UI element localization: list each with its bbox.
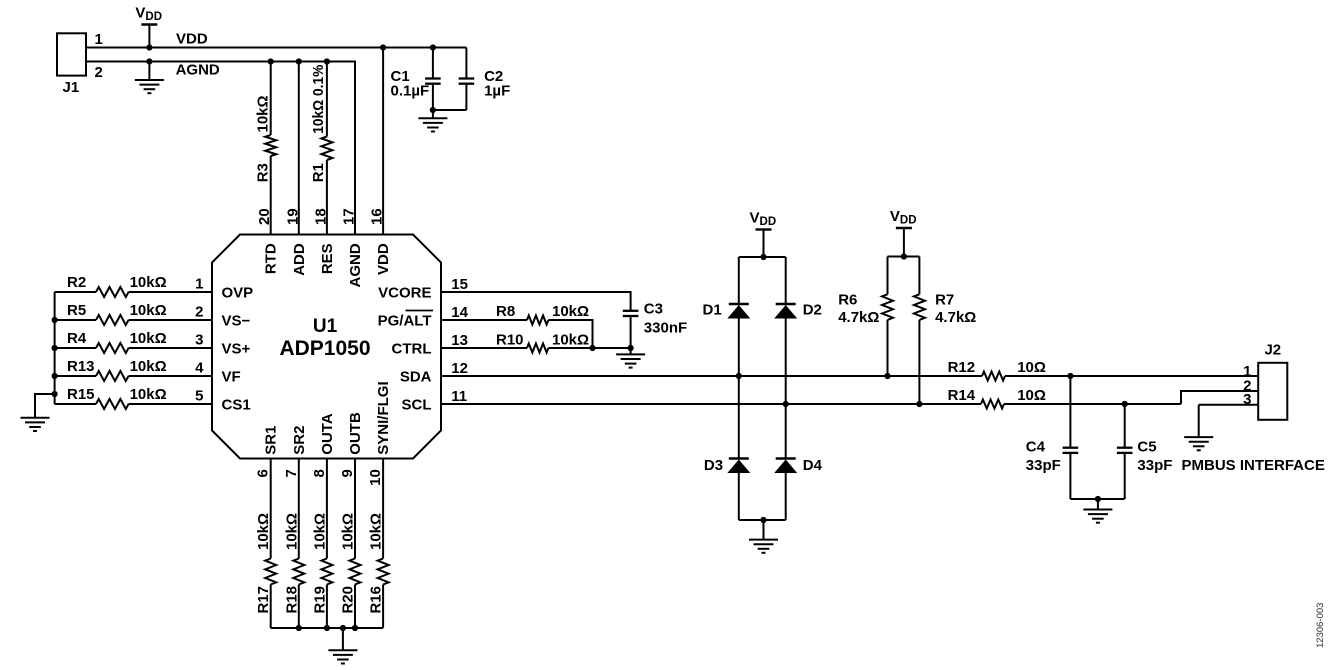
svg-text:10: 10 <box>367 469 384 486</box>
resistor R17 <box>255 459 276 629</box>
svg-text:J2: J2 <box>1264 342 1281 359</box>
ground (C4 C5) <box>1083 499 1112 523</box>
svg-text:SDA: SDA <box>400 368 432 385</box>
svg-text:R2: R2 <box>67 274 86 291</box>
IC U1 ADP1050 <box>212 235 441 459</box>
svg-text:VDD: VDD <box>375 243 392 275</box>
svg-text:10Ω: 10Ω <box>1017 359 1046 376</box>
svg-text:RES: RES <box>319 243 336 274</box>
node bottom bus junctions <box>296 625 358 631</box>
ground (diodes) <box>749 520 778 553</box>
power VDD symbol (J1) <box>135 4 162 47</box>
svg-text:VDD: VDD <box>135 4 162 23</box>
svg-text:10kΩ: 10kΩ <box>254 95 271 132</box>
svg-text:R4: R4 <box>67 330 87 347</box>
svg-text:2: 2 <box>195 304 203 321</box>
svg-text:VS+: VS+ <box>222 340 251 357</box>
resistor R14 <box>948 387 1181 409</box>
svg-text:1µF: 1µF <box>484 83 510 100</box>
node AGND-19 <box>296 58 302 64</box>
pin numbers right <box>451 276 468 405</box>
resistor R15 <box>55 386 212 409</box>
capacitor C2 <box>433 48 510 111</box>
pin names bottom <box>263 381 392 454</box>
pin numbers top <box>256 208 385 225</box>
node R8-R10 junction <box>589 345 595 351</box>
diode D2 <box>774 257 822 459</box>
resistor R6 <box>838 257 893 377</box>
node SCL-C5 <box>1122 401 1128 407</box>
resistor R8 <box>441 303 593 348</box>
svg-text:33pF: 33pF <box>1137 457 1172 474</box>
node bus-R13 <box>52 373 58 379</box>
svg-text:AGND: AGND <box>176 62 220 79</box>
wire VDD bus <box>86 47 466 49</box>
svg-text:18: 18 <box>312 208 329 225</box>
svg-text:330nF: 330nF <box>644 319 687 336</box>
svg-text:R17: R17 <box>255 586 272 614</box>
svg-text:R5: R5 <box>67 302 86 319</box>
svg-text:7: 7 <box>283 469 300 477</box>
svg-text:10kΩ: 10kΩ <box>340 513 357 550</box>
svg-text:6: 6 <box>255 469 272 477</box>
connector J1 <box>57 31 103 96</box>
svg-text:RTD: RTD <box>263 243 280 274</box>
svg-text:R15: R15 <box>67 386 95 403</box>
svg-text:ADP1050: ADP1050 <box>279 337 370 360</box>
node SDA-R6 <box>884 373 890 379</box>
node bus-R5 <box>52 317 58 323</box>
node bus-R4 <box>52 345 58 351</box>
connector J2 <box>1243 342 1287 420</box>
svg-text:VS−: VS− <box>222 312 251 329</box>
svg-text:CTRL: CTRL <box>392 340 432 357</box>
svg-text:12: 12 <box>451 360 468 377</box>
svg-text:9: 9 <box>339 469 356 477</box>
wire C4-C5 bus <box>1070 498 1124 500</box>
svg-text:R13: R13 <box>67 358 95 375</box>
wire pullup rail <box>888 256 920 258</box>
svg-text:J1: J1 <box>63 79 80 96</box>
node VDD-pullup rail <box>901 253 907 259</box>
wire J2 pin3 <box>1199 404 1259 406</box>
svg-text:ADD: ADD <box>291 243 308 276</box>
svg-text:D2: D2 <box>803 302 822 319</box>
svg-text:D4: D4 <box>803 457 823 474</box>
svg-text:SCL: SCL <box>402 396 432 413</box>
wire SCL to J2 pin2 <box>1181 391 1258 404</box>
pin numbers left <box>195 276 204 405</box>
svg-text:VDD: VDD <box>176 31 208 48</box>
svg-text:20: 20 <box>256 208 273 225</box>
node VDD-C1 <box>430 44 436 50</box>
wire SDA line <box>441 375 982 377</box>
resistor R4 <box>55 330 212 353</box>
svg-text:16: 16 <box>369 208 386 225</box>
ground (J1 AGND) <box>135 58 164 93</box>
svg-text:R18: R18 <box>283 586 300 614</box>
resistor R1 <box>310 62 333 235</box>
diode D3 <box>704 457 750 520</box>
svg-text:4.7kΩ: 4.7kΩ <box>935 309 976 326</box>
node SDA-D1 <box>736 373 742 379</box>
svg-text:C4: C4 <box>1026 439 1046 456</box>
node VDD-diode rail <box>760 254 766 260</box>
capacitor C4 <box>1026 376 1078 499</box>
svg-text:R20: R20 <box>340 586 357 614</box>
svg-text:VDD: VDD <box>890 208 917 227</box>
wire pin16 VDD <box>382 48 384 235</box>
pin names top <box>263 243 392 287</box>
svg-text:33pF: 33pF <box>1026 457 1061 474</box>
resistor R5 <box>55 302 212 325</box>
node SCL-D2 <box>783 401 789 407</box>
svg-text:R19: R19 <box>311 586 328 614</box>
svg-text:C3: C3 <box>644 300 663 317</box>
svg-text:VF: VF <box>222 368 241 385</box>
ground (C1 C2) <box>418 110 447 132</box>
ground (left bus) <box>21 394 55 431</box>
resistor R3 <box>254 62 276 235</box>
node SDA-C4 <box>1067 373 1073 379</box>
wire bottom bus <box>271 627 383 629</box>
svg-text:R6: R6 <box>838 292 857 309</box>
svg-text:15: 15 <box>451 276 468 293</box>
svg-text:10kΩ: 10kΩ <box>130 274 167 291</box>
svg-text:4: 4 <box>195 360 204 377</box>
svg-text:AGND: AGND <box>347 243 364 287</box>
resistor R16 <box>368 459 389 629</box>
svg-text:D1: D1 <box>703 302 722 319</box>
svg-text:R16: R16 <box>368 586 385 614</box>
svg-text:17: 17 <box>341 208 358 225</box>
svg-text:10kΩ: 10kΩ <box>130 330 167 347</box>
node SCL-R7 <box>916 401 922 407</box>
svg-text:10kΩ: 10kΩ <box>130 358 167 375</box>
pin names right <box>378 284 433 413</box>
svg-text:0.1µF: 0.1µF <box>391 83 430 100</box>
svg-text:12306-003: 12306-003 <box>1315 603 1326 648</box>
svg-text:R8: R8 <box>496 303 515 320</box>
svg-text:VDD: VDD <box>750 209 777 228</box>
svg-text:10kΩ: 10kΩ <box>368 513 385 550</box>
svg-text:U1: U1 <box>313 316 338 337</box>
svg-text:4.7kΩ: 4.7kΩ <box>838 309 879 326</box>
capacitor C3 <box>623 300 687 348</box>
node CTRL-C3 junction <box>628 345 634 351</box>
svg-text:10kΩ: 10kΩ <box>552 303 589 320</box>
svg-text:11: 11 <box>451 388 467 405</box>
svg-text:10Ω: 10Ω <box>1017 387 1046 404</box>
node C1-C2 junction <box>430 107 436 113</box>
svg-text:R1: R1 <box>310 163 327 182</box>
resistor R18 <box>283 459 304 629</box>
svg-text:C5: C5 <box>1137 439 1156 456</box>
svg-text:1: 1 <box>95 31 103 48</box>
svg-text:OUTA: OUTA <box>319 413 336 455</box>
svg-text:2: 2 <box>95 64 103 81</box>
svg-text:R14: R14 <box>948 387 976 404</box>
svg-text:10kΩ: 10kΩ <box>283 513 300 550</box>
svg-text:CS1: CS1 <box>222 396 251 413</box>
svg-text:VCORE: VCORE <box>378 284 431 301</box>
resistor R13 <box>55 358 212 381</box>
svg-text:D3: D3 <box>704 457 723 474</box>
svg-text:8: 8 <box>311 469 328 477</box>
power VDD symbol (pullups) <box>890 208 917 257</box>
svg-text:SR1: SR1 <box>263 426 280 455</box>
svg-text:R10: R10 <box>496 331 524 348</box>
svg-text:SR2: SR2 <box>291 426 308 455</box>
svg-text:14: 14 <box>451 304 468 321</box>
pin numbers bottom <box>255 469 384 486</box>
node VDD-16 <box>380 44 386 50</box>
svg-text:10kΩ 0.1%: 10kΩ 0.1% <box>310 65 327 134</box>
svg-text:R7: R7 <box>935 292 954 309</box>
svg-text:13: 13 <box>451 332 468 349</box>
diode D1 <box>703 257 751 459</box>
resistor R10 <box>441 331 631 352</box>
svg-text:10kΩ: 10kΩ <box>552 331 589 348</box>
svg-text:3: 3 <box>1243 391 1251 408</box>
wire AGND bus <box>86 62 355 235</box>
node AGND-R3 <box>268 58 274 64</box>
ground (J2 pin3) <box>1184 405 1213 451</box>
svg-text:1: 1 <box>195 276 203 293</box>
node C4-C5 junction <box>1095 496 1101 502</box>
svg-text:10kΩ: 10kΩ <box>255 513 272 550</box>
resistor R20 <box>340 459 361 629</box>
svg-text:10kΩ: 10kΩ <box>130 386 167 403</box>
capacitor C1 <box>391 48 441 111</box>
wire pin19 <box>298 62 300 235</box>
svg-text:R12: R12 <box>948 359 976 376</box>
svg-text:5: 5 <box>195 388 203 405</box>
node AGND-R1 <box>324 58 330 64</box>
wire diode bottom rail <box>739 519 786 521</box>
node bus-ground tap <box>52 391 58 397</box>
svg-text:OUTB: OUTB <box>347 412 364 455</box>
power VDD symbol (diodes) <box>750 209 777 257</box>
resistor R12 <box>948 359 1259 381</box>
resistor R19 <box>311 459 332 629</box>
svg-text:PG/ALT: PG/ALT <box>378 312 432 329</box>
capacitor C5 <box>1117 404 1173 499</box>
ground (bottom bus) <box>328 628 357 664</box>
svg-text:OVP: OVP <box>222 284 254 301</box>
svg-text:3: 3 <box>195 332 203 349</box>
wire SCL line <box>441 403 981 405</box>
svg-text:19: 19 <box>284 208 301 225</box>
resistor R2 <box>55 274 212 297</box>
diode D4 <box>774 457 822 520</box>
resistor R7 <box>914 257 976 405</box>
wire VCORE pin15 <box>441 292 631 311</box>
svg-text:PMBUS INTERFACE: PMBUS INTERFACE <box>1182 457 1325 474</box>
svg-text:SYNI/FLGI: SYNI/FLGI <box>375 381 392 454</box>
ground (C3) <box>616 348 645 368</box>
pin names left <box>222 284 254 413</box>
svg-text:10kΩ: 10kΩ <box>130 302 167 319</box>
svg-text:10kΩ: 10kΩ <box>311 513 328 550</box>
node diode-ground rail <box>760 517 766 523</box>
wire diode top rail <box>739 256 786 258</box>
svg-text:R3: R3 <box>254 163 271 182</box>
node VDD junction <box>146 44 152 50</box>
wire left bus <box>54 292 56 404</box>
